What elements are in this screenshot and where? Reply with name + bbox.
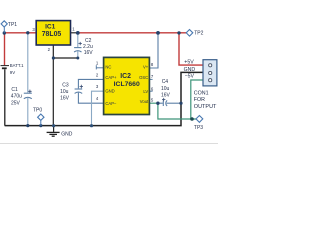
svg-text:GND: GND	[184, 67, 196, 73]
svg-text:+5V: +5V	[184, 59, 194, 65]
svg-text:C4: C4	[162, 79, 169, 85]
svg-text:FOR: FOR	[194, 97, 205, 103]
svg-text:16V: 16V	[161, 93, 171, 99]
svg-text:CAP+: CAP+	[105, 75, 117, 80]
svg-text:16V: 16V	[84, 50, 94, 56]
svg-text:IC1: IC1	[45, 24, 56, 31]
svg-text:BATT.1: BATT.1	[10, 63, 24, 68]
svg-text:TP3: TP3	[194, 125, 203, 131]
svg-text:GND: GND	[105, 89, 114, 94]
svg-text:TP2: TP2	[194, 30, 203, 36]
svg-text:IC2: IC2	[120, 73, 131, 80]
svg-text:16V: 16V	[60, 95, 70, 101]
svg-text:25V: 25V	[11, 100, 21, 106]
svg-text:OUTPUT: OUTPUT	[194, 104, 217, 110]
svg-text:TP0: TP0	[33, 107, 42, 113]
svg-text:ICL7660: ICL7660	[114, 81, 140, 88]
svg-text:CON1: CON1	[194, 90, 209, 96]
svg-text:C3: C3	[62, 83, 69, 89]
svg-text:NC: NC	[105, 65, 111, 70]
svg-text:470u: 470u	[11, 94, 22, 100]
svg-text:TP1: TP1	[8, 22, 17, 28]
svg-text:−5V: −5V	[185, 74, 195, 80]
svg-text:10u: 10u	[60, 89, 69, 95]
svg-text:Vout: Vout	[140, 99, 149, 104]
svg-text:OSC: OSC	[139, 75, 148, 80]
svg-text:78L05: 78L05	[42, 31, 62, 38]
svg-text:GND: GND	[61, 132, 72, 138]
svg-text:9V: 9V	[10, 70, 15, 75]
svg-text:V+: V+	[143, 65, 149, 70]
svg-text:LV: LV	[143, 89, 148, 94]
svg-text:10u: 10u	[161, 86, 170, 92]
svg-text:CAP−: CAP−	[105, 101, 117, 106]
svg-text:C1: C1	[11, 87, 18, 93]
svg-text:C2: C2	[85, 38, 92, 44]
